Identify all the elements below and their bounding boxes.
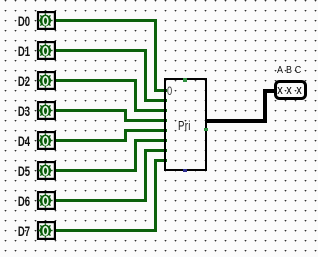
input pin D5: [36, 160, 57, 181]
encoder output stub (green) right edge: [204, 128, 207, 131]
wire D1 vertical: [144, 49, 147, 102]
label D4: [10, 134, 30, 148]
label D2: [10, 74, 30, 88]
wire D7 to encoder input 7: [154, 159, 167, 162]
priority encoder U1 box: [164, 78, 207, 171]
wire D2 to encoder input 2: [134, 109, 167, 112]
encoder label Pri: [178, 121, 191, 131]
label D0: [10, 14, 30, 28]
label D6: [10, 194, 30, 208]
wire D3 vertical: [124, 109, 127, 122]
input pin D1: [36, 40, 57, 61]
bus wire from encoder output horizontal: [205, 119, 267, 123]
encoder bottom pin stub (blue): [183, 169, 187, 172]
encoder top pin stub (green): [183, 78, 187, 82]
wire from pin D7 horizontal: [55, 229, 157, 232]
wire D3 to encoder input 3: [124, 119, 167, 122]
wire D7 vertical: [154, 159, 157, 232]
wire from pin D0 horizontal: [55, 19, 157, 22]
input pin D6: [36, 190, 57, 211]
wire D5 to encoder input 5: [134, 139, 167, 142]
bus wire vertical: [263, 89, 267, 124]
wire D5 vertical: [134, 139, 137, 172]
output display box: [274, 80, 308, 100]
wire from pin D1 horizontal: [55, 49, 147, 52]
wire from pin D6 horizontal: [55, 199, 147, 202]
wire D4 vertical: [124, 129, 127, 142]
label D5: [10, 164, 30, 178]
display value x x x: [275, 83, 284, 96]
wire from pin D3 horizontal: [55, 109, 127, 112]
wire D6 vertical: [144, 149, 147, 202]
wire D0 to encoder input 0: [154, 89, 167, 92]
wire from pin D5 horizontal: [55, 169, 137, 172]
wire from pin D4 horizontal: [55, 139, 127, 142]
wire from pin D2 horizontal: [55, 79, 137, 82]
input pin D7: [36, 220, 57, 241]
wire D2 vertical: [134, 79, 137, 112]
label D7: [10, 224, 30, 238]
wire D4 to encoder input 4: [124, 129, 167, 132]
input pin D0: [36, 10, 57, 31]
label D1: [10, 44, 30, 58]
display pin labels A B C: [274, 67, 285, 75]
label D3: [10, 104, 30, 118]
wire D1 to encoder input 1: [144, 99, 167, 102]
bus wire to display: [263, 89, 275, 93]
encoder pin value label 0: [167, 86, 172, 96]
wire D0 vertical: [154, 19, 157, 92]
input pin D2: [36, 70, 57, 91]
wire D6 to encoder input 6: [144, 149, 167, 152]
input pin D3: [36, 100, 57, 121]
input pin D4: [36, 130, 57, 151]
